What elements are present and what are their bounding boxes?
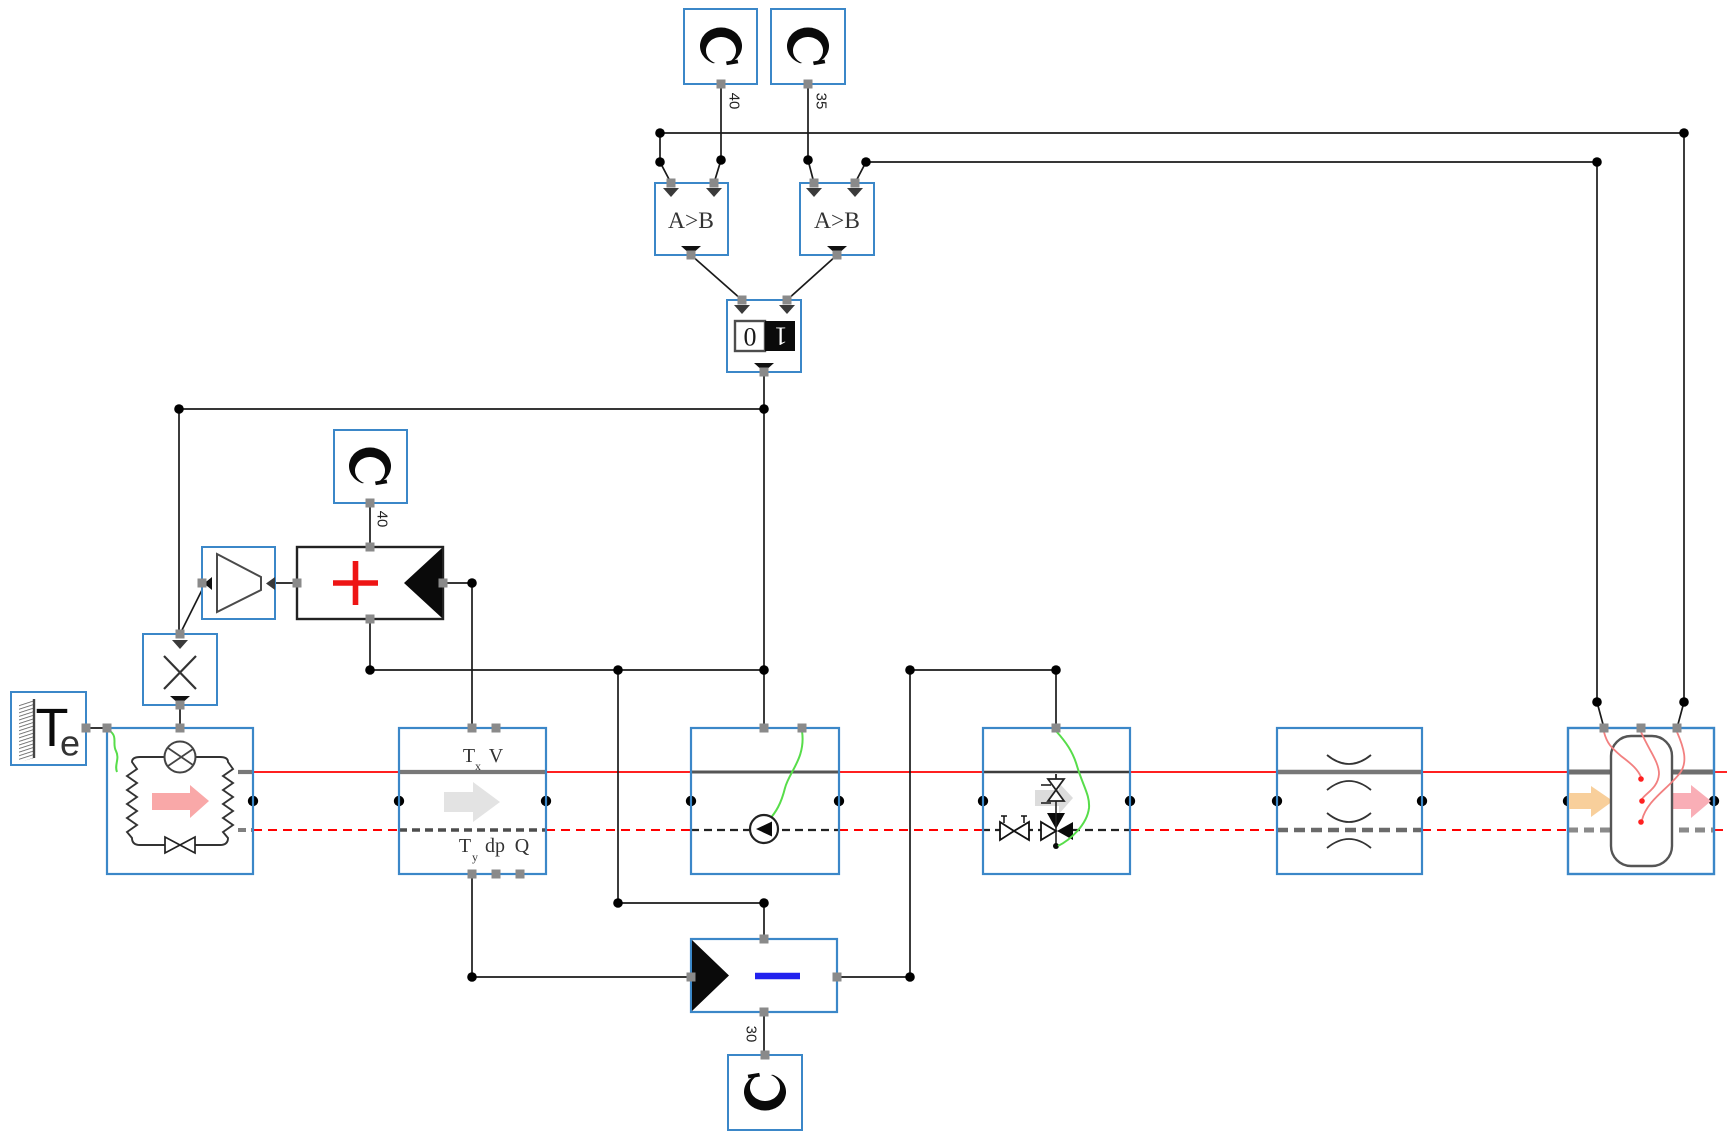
port plus bottom — [366, 615, 375, 624]
port multiplier output — [176, 701, 185, 710]
port subtract left — [687, 973, 696, 982]
constant C2 (value 35) — [771, 9, 845, 84]
junction net B right corner — [1592, 157, 1602, 167]
port Te output — [82, 724, 91, 733]
port A>B1 output — [687, 251, 696, 260]
supply pipe gray segment in pump block — [691, 771, 839, 774]
junction net A jog corner — [655, 157, 665, 167]
wire: switch output riser down to pump control port — [763, 372, 765, 728]
constant C1 (value 40) — [684, 9, 757, 84]
junction plus-to-pipe corner — [467, 578, 477, 588]
node pump right — [834, 796, 844, 806]
wire: constant C3 to plus block top — [369, 503, 371, 547]
junction tank riser 2 corner — [1592, 697, 1602, 707]
port pipe bottom 2 — [492, 870, 501, 879]
wire net A: y=133 horizontal from A>B1 area to tank riser — [660, 132, 1684, 134]
wire net B: y=162 horizontal to tank riser 2 — [866, 161, 1597, 163]
junction net A right corner — [1679, 128, 1689, 138]
port A>B2 output — [833, 251, 842, 260]
supply pipe gray segment in heat exchanger — [1277, 770, 1422, 775]
svg-text:40: 40 — [726, 93, 743, 110]
svg-text:T: T — [463, 745, 475, 767]
svg-text:T: T — [459, 835, 471, 857]
junction net A left corner — [655, 128, 665, 138]
port heat pump control — [176, 724, 185, 733]
port switch input 1 — [738, 296, 747, 305]
return pipe dashed segment in pipe block — [399, 828, 546, 832]
wire: subtract right port up to valve top port — [837, 670, 1056, 977]
wire: A>B2 output to switch input 2 — [787, 255, 837, 300]
label 30 on C4 wire — [743, 1026, 760, 1043]
junction tank riser 1 corner — [1679, 697, 1689, 707]
node pipe block left — [394, 796, 404, 806]
junction branch y409 left corner — [174, 404, 184, 414]
wire: tank riser 2 down to tank port 1 — [1597, 162, 1604, 728]
wire: branch x=618 down to y=903 into subtract top port — [618, 670, 764, 939]
svg-text:Q: Q — [515, 835, 530, 857]
port pipe top 1 — [468, 724, 477, 733]
node tank right — [1709, 796, 1719, 806]
plus / add block — [297, 547, 443, 619]
port A>B2 input B — [851, 179, 860, 188]
wire: vertical drop x=179 to multiplier input — [179, 409, 180, 634]
port tank sensor 1 — [1600, 724, 1609, 733]
junction riser/control net — [759, 665, 769, 675]
port tank sensor 2 — [1637, 724, 1646, 733]
return pipe dashed segment in heat pump — [238, 828, 253, 832]
port C3 output — [366, 499, 375, 508]
port A>B1 input A — [667, 179, 676, 188]
supply pipe gray segments in tank block — [1568, 770, 1714, 775]
return pipe dashed segment in valve block — [983, 829, 1130, 831]
block background fills (bottom row) — [107, 728, 1714, 874]
constant C4 (value 30) — [728, 1055, 802, 1130]
amplifier / gain block — [202, 547, 275, 619]
multiplier block — [143, 634, 217, 705]
junction subtract branch corner — [613, 898, 623, 908]
port A>B1 input B — [710, 179, 719, 188]
port subtract top — [760, 935, 769, 944]
wire: tank riser 1 down to tank port 3 — [1677, 133, 1684, 728]
port A>B2 input A — [810, 179, 819, 188]
port plus top — [366, 543, 375, 552]
wire: constant C2 to A>B2 input A — [808, 84, 814, 183]
svg-text:dp: dp — [485, 835, 505, 857]
port switch input 2 — [783, 296, 792, 305]
wire: plus block right port to pipe block top port — [443, 583, 472, 728]
svg-text:0: 0 — [744, 323, 757, 352]
junction subtract right corner — [905, 972, 915, 982]
svg-text:1: 1 — [775, 322, 788, 351]
port plus left — [293, 579, 302, 588]
pipe block (Tx V / Ty dp Q) — [399, 728, 546, 874]
subtract block — [691, 939, 837, 1012]
node pipe block right — [541, 796, 551, 806]
return pipe dashed segments in tank block — [1568, 828, 1714, 833]
junction C2 wire corner — [803, 155, 813, 165]
wire: horizontal branch y=409 to multiplier column — [179, 408, 764, 410]
supply pipe gray segment in pipe block — [399, 770, 546, 774]
valve block (3-way valve) — [983, 728, 1130, 874]
port C2 output — [804, 80, 813, 89]
wire: pipe block bottom port to subtract left port — [472, 874, 691, 977]
wire: multiplier output to heat pump top port — [179, 705, 181, 728]
node heat exchanger right — [1417, 796, 1427, 806]
wire: plus block bottom port to control net y=670 — [370, 619, 764, 670]
supply pipe gray segment in heat pump — [238, 770, 253, 774]
Te ambient temperature block — [11, 692, 86, 765]
supply pipe (red solid line segments between blocks) — [253, 771, 1727, 773]
port C4 output — [761, 1051, 770, 1060]
svg-text:x: x — [475, 759, 481, 773]
node pump left — [686, 796, 696, 806]
return pipe dashed segment in pump block — [691, 829, 839, 831]
port heat pump Te input — [103, 724, 112, 733]
port pipe top 2 — [492, 724, 501, 733]
svg-text:e: e — [60, 723, 80, 764]
port pipe bottom 3 — [516, 870, 525, 879]
port pump aux — [798, 724, 807, 733]
port pipe bottom 1 — [468, 870, 477, 879]
port plus right — [439, 579, 448, 588]
port multiplier input — [176, 630, 185, 639]
svg-text:35: 35 — [813, 93, 830, 110]
label 35 on C2 wire — [813, 93, 830, 110]
comparator A>B #1 — [655, 183, 728, 255]
label 40 on C1 wire — [726, 93, 743, 110]
port subtract output — [833, 973, 842, 982]
node valve left — [978, 796, 988, 806]
node valve right — [1125, 796, 1135, 806]
junction C1 wire corner — [716, 155, 726, 165]
comparator A>B #2 — [800, 183, 874, 255]
svg-text:A>B: A>B — [668, 208, 714, 234]
node heat pump right — [248, 796, 258, 806]
svg-text:V: V — [489, 745, 504, 767]
wire: subtract bottom port to constant C4 — [763, 1012, 765, 1055]
port switch output — [760, 368, 769, 377]
port valve control — [1052, 724, 1061, 733]
svg-text:A>B: A>B — [814, 208, 860, 234]
svg-text:40: 40 — [374, 511, 391, 528]
heat pump block — [107, 728, 253, 874]
node tank left — [1563, 796, 1573, 806]
junction subtract top corner — [759, 898, 769, 908]
junction net B left corner — [861, 157, 871, 167]
wire: plus block left port to amplifier right port — [275, 582, 297, 584]
node heat exchanger left — [1272, 796, 1282, 806]
wire: amplifier output to multiplier input — [181, 588, 203, 632]
port C1 output — [717, 80, 726, 89]
pump block — [691, 728, 839, 874]
label 40 on C3 wire — [374, 511, 391, 528]
port amplifier output — [198, 579, 207, 588]
switch block 0/1 — [727, 300, 801, 372]
junction riser/branch y409 — [759, 404, 769, 414]
junction subtract-to-valve corner — [905, 665, 915, 675]
junction pipe-to-subtract corner — [467, 972, 477, 982]
wire: Te output to heat pump corner port — [86, 727, 107, 729]
storage tank block — [1568, 728, 1714, 874]
return pipe (red dashed line segments between blocks) — [253, 829, 1727, 831]
port subtract bottom — [760, 1008, 769, 1017]
junction valve drop corner — [1051, 665, 1061, 675]
svg-text:y: y — [472, 850, 478, 864]
wire: A>B1 output to switch input 1 — [691, 255, 742, 300]
wire: vertical jog at left end of net A — [660, 133, 671, 183]
port pump control — [760, 724, 769, 733]
wire: constant C1 to A>B1 input B — [714, 84, 721, 183]
port tank sensor 3 — [1673, 724, 1682, 733]
supply pipe gray segment in valve block — [983, 771, 1130, 774]
wire: net B drop to A>B2 input B — [855, 162, 866, 183]
junction plus bottom corner — [365, 665, 375, 675]
constant C3 (value 40) — [334, 430, 407, 503]
svg-text:30: 30 — [743, 1026, 760, 1043]
heat exchanger block — [1277, 728, 1422, 874]
junction control net tee — [613, 665, 623, 675]
return pipe dashed segment in heat exchanger — [1277, 828, 1422, 833]
